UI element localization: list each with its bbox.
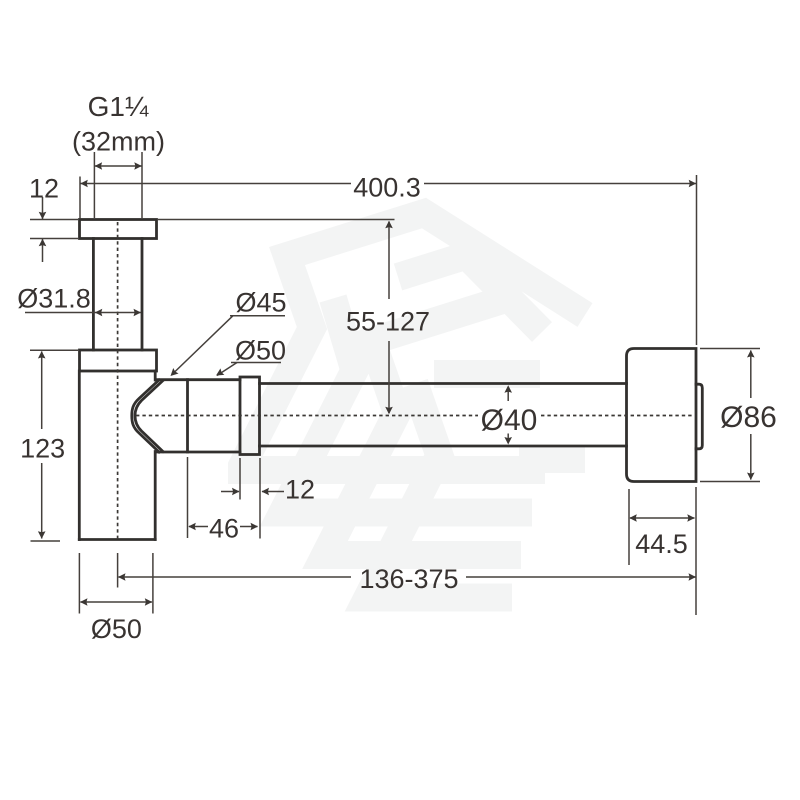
dia 50 bottom extension line left bbox=[78, 553, 80, 614]
12 flange arrow stem below bbox=[42, 239, 44, 262]
dia 50 bottom arrow left bbox=[80, 598, 88, 606]
watermark hexagon echo copy 2 bbox=[325, 298, 521, 555]
dia 86 dimension line lower part bbox=[750, 434, 752, 480]
dia 86 dimension line upper part bbox=[750, 351, 752, 399]
watermark hexagon echo copy 3 bbox=[368, 384, 513, 598]
123 extension tick bottom bbox=[31, 540, 61, 542]
pipe axis centerline left part bbox=[136, 415, 478, 417]
12 ring arrow pointing right bbox=[232, 488, 240, 496]
dia 45 leader arrowhead bbox=[168, 368, 179, 379]
55-127 dimension line upper part bbox=[388, 222, 390, 300]
400.3 arrow right bbox=[689, 180, 697, 188]
dia 40 arrow down bbox=[504, 437, 512, 445]
123 arrow down bbox=[38, 531, 46, 539]
12 ring extension line right bbox=[259, 458, 261, 539]
G1 1/4 arrow right bbox=[134, 162, 142, 170]
123 arrow up bbox=[38, 351, 46, 359]
G1 1/4 extension line right bbox=[141, 152, 143, 218]
44.5 arrow right bbox=[687, 514, 695, 522]
svg-text:123: 123 bbox=[20, 434, 65, 464]
dia 45 label underline bbox=[230, 315, 285, 317]
136-375 dimension line right part bbox=[466, 576, 696, 578]
12 flange extension line top bbox=[30, 219, 78, 221]
400.3 dimension line right part bbox=[424, 183, 696, 185]
136-375 extension line center bbox=[117, 553, 119, 588]
svg-text:44.5: 44.5 bbox=[635, 529, 688, 559]
watermark crossbar copy 0 bbox=[434, 360, 540, 388]
outlet pipe top edge (dome to ring) bbox=[157, 378, 240, 381]
dia 31.8 dimension line bbox=[25, 312, 141, 314]
bottle collar bbox=[80, 350, 157, 371]
outlet pipe bottom edge (dome to ring) bbox=[157, 451, 240, 454]
centerlines (dashed) bbox=[118, 222, 694, 539]
136-375 arrow left bbox=[118, 573, 126, 581]
G1 1/4 extension line left bbox=[93, 152, 95, 218]
bottle vertical centerline bbox=[117, 222, 119, 539]
elbow dome outer curve bbox=[132, 380, 159, 452]
123 dimension line lower part bbox=[41, 463, 43, 539]
dia 50 leader arrowhead bbox=[214, 368, 224, 378]
12 flange arrow up bbox=[39, 239, 47, 247]
dia 86 extension line top bbox=[700, 348, 760, 350]
top flange bbox=[80, 220, 157, 239]
svg-text:Ø45: Ø45 bbox=[235, 288, 286, 318]
dia 31.8 arrow right bbox=[134, 309, 142, 317]
bottle body left wall bbox=[78, 371, 81, 540]
46 extension line left bbox=[187, 457, 189, 538]
watermark crossbar copy 2 bbox=[519, 445, 585, 473]
123 extension line top bbox=[30, 349, 78, 351]
svg-text:400.3: 400.3 bbox=[353, 173, 421, 203]
svg-text:Ø86: Ø86 bbox=[720, 401, 777, 434]
svg-text:Ø50: Ø50 bbox=[91, 614, 142, 644]
bottle body right wall lower bbox=[154, 452, 157, 540]
dia 40 arrow up bbox=[504, 385, 512, 393]
46 dimension line left part bbox=[189, 526, 208, 528]
400.3 extension line right tall bbox=[696, 175, 698, 345]
svg-text:Ø50: Ø50 bbox=[235, 336, 286, 366]
400.3 arrow left bbox=[80, 180, 88, 188]
dia 86 extension line bottom bbox=[700, 481, 760, 483]
compression ring bbox=[240, 377, 260, 455]
400.3 extension line left bbox=[79, 177, 81, 219]
extension tube bottom edge bbox=[260, 445, 627, 448]
dia 86 arrow up bbox=[747, 350, 755, 358]
dia 50 bottom dimension line bbox=[80, 601, 151, 603]
svg-text:G1¼: G1¼ bbox=[88, 91, 149, 122]
extension tube top edge bbox=[260, 382, 627, 385]
136-375 dimension line left part bbox=[119, 576, 352, 578]
400.3 dimension line left part bbox=[81, 183, 352, 185]
12 flange extension line bottom bbox=[30, 238, 78, 240]
svg-text:Ø31.8: Ø31.8 bbox=[17, 284, 91, 314]
dia 40 arrow stem down bbox=[507, 434, 509, 444]
dia 40 arrow stem up bbox=[507, 387, 509, 401]
dia 50 bottom arrow right bbox=[145, 598, 153, 606]
wall flange pipe stub bbox=[696, 384, 702, 449]
wall flange bbox=[627, 349, 697, 482]
svg-text:(32mm): (32mm) bbox=[72, 127, 165, 157]
svg-text:12: 12 bbox=[29, 174, 59, 204]
12 flange arrow stem above bbox=[42, 197, 44, 219]
44.5 extension line left bbox=[628, 489, 630, 565]
123 dimension line upper part bbox=[41, 352, 43, 430]
12 flange arrow down bbox=[39, 212, 47, 220]
46 arrow right bbox=[251, 523, 259, 531]
136-375 arrow right bbox=[689, 573, 697, 581]
44.5 extension line right bbox=[695, 487, 697, 615]
46 dimension line right part bbox=[240, 526, 258, 528]
dome divider line bbox=[186, 380, 189, 452]
44.5 dimension line bbox=[630, 517, 695, 519]
inlet pipe left wall bbox=[92, 239, 95, 351]
55-127 arrow up bbox=[385, 221, 393, 229]
watermark hexagon echo copy 1 upper arm bbox=[398, 256, 542, 333]
55-127 arrow down bbox=[385, 407, 393, 415]
46 arrow left bbox=[188, 523, 196, 531]
watermark hexagon echo copy 0 bbox=[240, 213, 585, 470]
dia 50 leader line bbox=[217, 363, 237, 376]
12 ring extension line left bbox=[239, 458, 241, 500]
svg-text:46: 46 bbox=[209, 514, 239, 544]
G1 1/4 arrow left bbox=[95, 162, 103, 170]
dia 50 bottom extension line right bbox=[152, 553, 154, 614]
dia 50 label underline bbox=[231, 362, 281, 364]
bottle body right wall upper bbox=[154, 371, 157, 380]
44.5 arrow left bbox=[629, 514, 637, 522]
svg-text:Ø40: Ø40 bbox=[481, 404, 538, 437]
svg-text:136-375: 136-375 bbox=[359, 564, 458, 594]
12 ring arrow tail left bbox=[221, 491, 239, 493]
12 ring arrow pointing left bbox=[262, 488, 270, 496]
svg-text:12: 12 bbox=[285, 475, 315, 505]
dia 45 leader line bbox=[172, 316, 233, 375]
dia 86 arrow down bbox=[747, 473, 755, 481]
bottle body bottom bbox=[79, 538, 155, 541]
55-127 top extension line bbox=[157, 219, 395, 221]
elbow dome inner curve bbox=[135, 381, 163, 452]
dia 31.8 arrow left bbox=[95, 309, 103, 317]
watermark hexagon echo copy 1 lower chain bbox=[283, 299, 533, 513]
pipe axis centerline right part bbox=[541, 415, 694, 417]
G1 1/4 dimension line bbox=[94, 165, 142, 167]
inlet pipe right wall bbox=[141, 239, 144, 351]
svg-text:55-127: 55-127 bbox=[346, 307, 430, 337]
55-127 dimension line lower part bbox=[388, 341, 390, 413]
12 ring arrow tail right bbox=[262, 491, 284, 493]
